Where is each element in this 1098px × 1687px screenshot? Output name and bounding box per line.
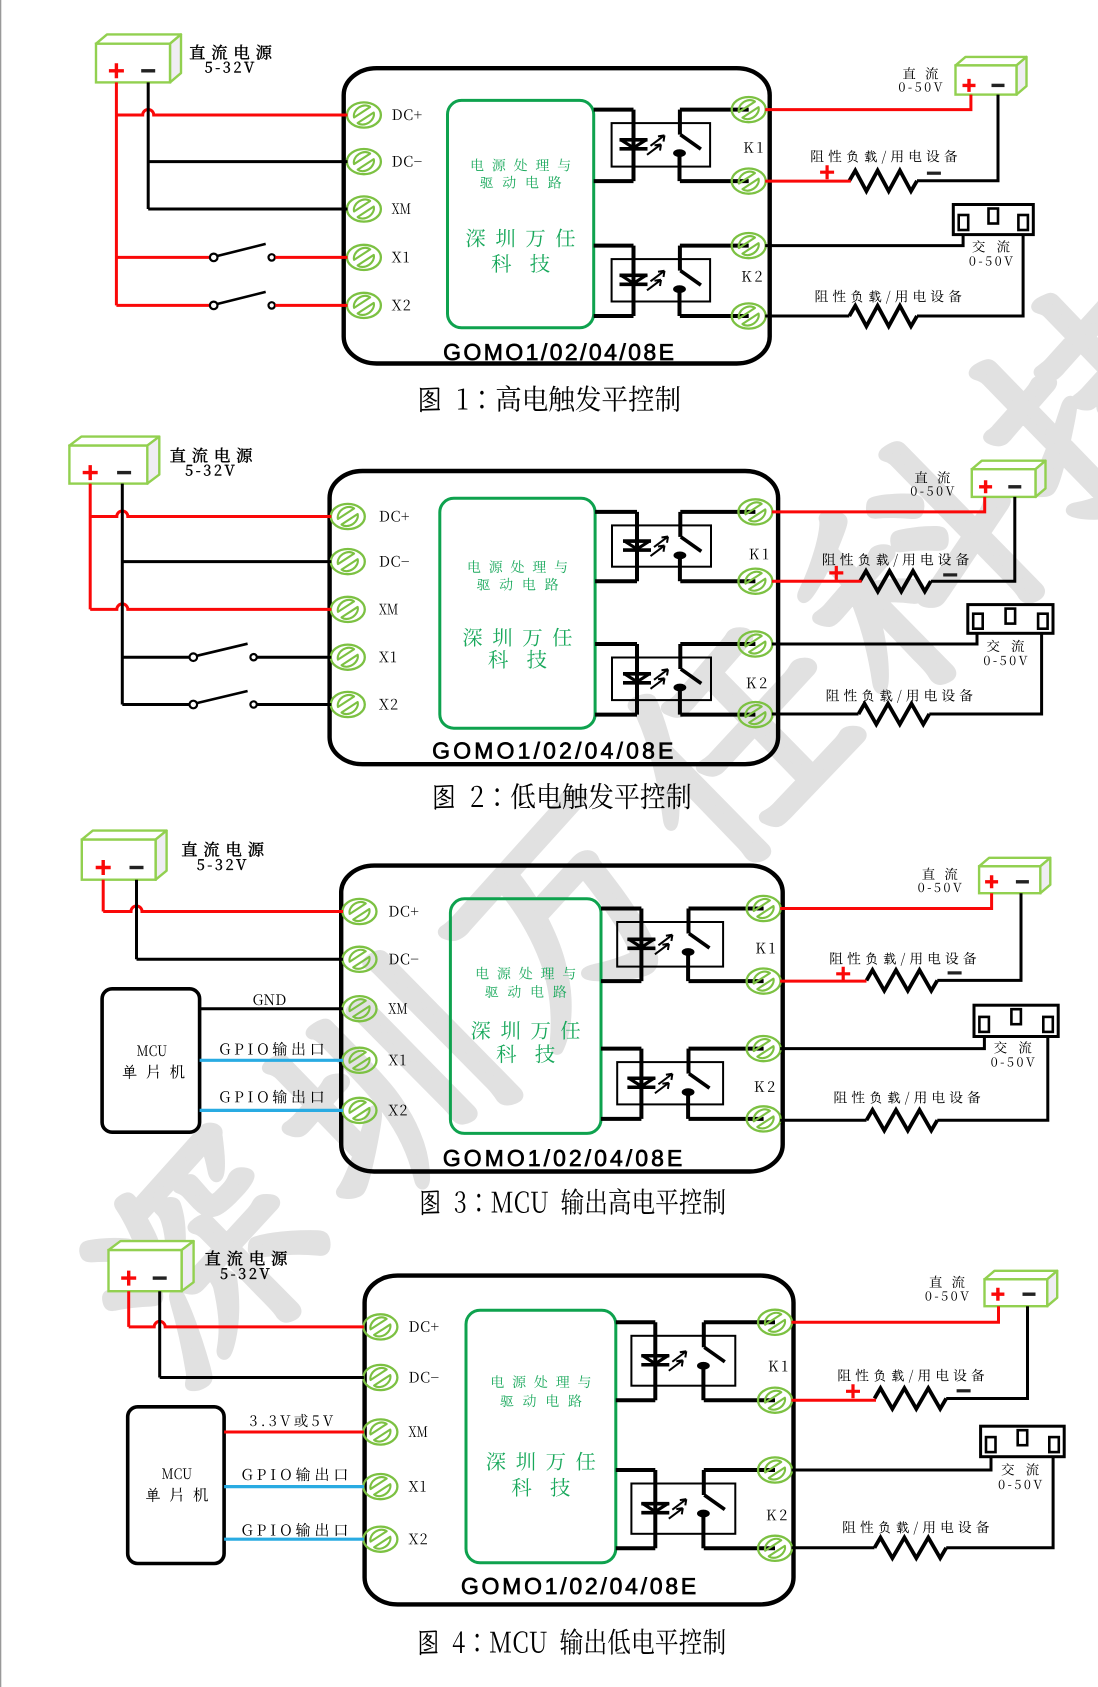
label 阻性负载/用电设备 bbox=[811, 150, 957, 164]
terminal U3.DC+ bbox=[343, 899, 377, 925]
pin label U1.X1 bbox=[392, 252, 409, 263]
terminal U3.X1 bbox=[343, 1047, 377, 1073]
relay module U2 GOMO1/02/04/08E body bbox=[330, 471, 778, 764]
label U2 model GOMO1/02/04/08E bbox=[433, 742, 672, 759]
polarity marks on load R4a bbox=[846, 1384, 860, 1398]
AC source plug 交流 0-50V (diagram 2) bbox=[968, 605, 1053, 634]
terminal U2.XM bbox=[331, 597, 365, 623]
wire DC source - down to load (black) bbox=[931, 497, 1015, 581]
optocoupler+relay K2 of U2 bbox=[612, 658, 711, 701]
wire relay K1 contacts to terminals bbox=[680, 510, 755, 514]
terminal U4 K2 bottom bbox=[758, 1535, 792, 1561]
pin label U4.X1 bbox=[409, 1481, 426, 1492]
polarity marks on load R3a bbox=[836, 967, 850, 981]
caption 图1 bbox=[420, 385, 680, 412]
label 阻性负载/用电设备 bbox=[827, 689, 973, 703]
pin label U4.DC- bbox=[409, 1372, 438, 1383]
label 直流 bbox=[922, 868, 957, 881]
label MCU bbox=[162, 1468, 192, 1479]
wire K1 top to DC source + (red) bbox=[780, 893, 992, 908]
wire DC source - down to load (black) bbox=[917, 95, 998, 181]
resistor load R3b 阻性负载 bbox=[867, 1110, 938, 1131]
optocoupler+relay K2 of U1 bbox=[612, 259, 711, 301]
pin label U3.X1 bbox=[388, 1055, 405, 1066]
label U3 深圳万任 bbox=[471, 1021, 580, 1040]
terminal U3.XM bbox=[343, 996, 377, 1022]
label 交流 bbox=[1002, 1463, 1039, 1475]
pin label U3.X2 bbox=[388, 1105, 406, 1116]
label U3 电源处理与 bbox=[477, 967, 575, 980]
label U4 model GOMO1/02/04/08E bbox=[462, 1577, 695, 1594]
terminal U1.XM bbox=[347, 196, 381, 222]
optocoupler+relay K2 of U3 bbox=[617, 1062, 723, 1104]
caption 图4 bbox=[419, 1628, 725, 1655]
switch S2 on X2 line bbox=[122, 703, 189, 706]
pin label U3.DC+ bbox=[389, 906, 418, 917]
label B4 5-32V bbox=[221, 1268, 270, 1279]
label U2 科技 bbox=[488, 650, 546, 669]
terminal U1.DC- bbox=[347, 149, 381, 175]
label U3 驱动电路 bbox=[485, 985, 566, 998]
pin label U1.XM bbox=[392, 203, 411, 214]
label U4 电源处理与 bbox=[492, 1375, 590, 1388]
AC source plug 交流 0-50V (diagram 4) bbox=[981, 1426, 1065, 1457]
terminal U1 K2 bottom bbox=[732, 303, 766, 329]
label U3 K1 bbox=[756, 943, 775, 954]
terminal U2.DC- bbox=[331, 549, 365, 575]
switch S2 on X2 line bbox=[116, 304, 209, 307]
pin label U4.DC+ bbox=[409, 1321, 438, 1332]
pin label U2.DC+ bbox=[380, 511, 409, 522]
label B1 5-32V bbox=[205, 62, 254, 73]
label 阻性负载/用电设备 bbox=[835, 1091, 981, 1105]
terminal U4.X2 bbox=[363, 1526, 397, 1552]
caption 图3 bbox=[421, 1188, 725, 1215]
label 单片机 bbox=[123, 1065, 185, 1080]
wire K1 bottom to load + (red) bbox=[765, 180, 851, 183]
wire load R3b to K2 bottom bbox=[780, 1119, 866, 1122]
resistor load R1a 阻性负载 bbox=[849, 171, 917, 192]
label U1 电源处理与 bbox=[472, 159, 570, 172]
label U1 驱动电路 bbox=[480, 176, 561, 189]
label U4 科技 bbox=[512, 1478, 570, 1497]
wire load R1b to K2 bottom bbox=[765, 315, 849, 318]
U3 driver circuit box bbox=[450, 899, 601, 1134]
wire relay K1 contacts to terminals bbox=[704, 1320, 775, 1324]
label 0-50V bbox=[984, 656, 1028, 666]
label 0-50V bbox=[911, 486, 955, 496]
battery B3 DC power 5-32V bbox=[82, 831, 167, 840]
label U4 深圳万任 bbox=[487, 1452, 596, 1471]
optocoupler+relay K2 of U4 bbox=[631, 1484, 735, 1534]
terminal U2 K2 top bbox=[738, 631, 772, 657]
DC load source 0-50V box (diagram 4) bbox=[985, 1271, 1058, 1280]
terminal U4 K2 top bbox=[758, 1457, 792, 1483]
terminal U3 K1 top bbox=[747, 896, 781, 922]
label U2 电源处理与 bbox=[469, 560, 567, 573]
terminal U3.DC- bbox=[343, 946, 377, 972]
wire K1 bottom to load + (red) bbox=[780, 980, 866, 983]
label B3 直流电源 bbox=[182, 842, 264, 857]
wire K1 top to DC source + (red) bbox=[765, 95, 971, 110]
battery B1 DC power 5-32V bbox=[96, 34, 181, 43]
label 0-50V bbox=[999, 1480, 1043, 1490]
terminal U4.DC+ bbox=[363, 1314, 397, 1340]
label U2 驱动电路 bbox=[477, 578, 558, 591]
wire relay K2 contacts to terminals bbox=[680, 244, 749, 248]
terminal U4.XM bbox=[363, 1419, 397, 1445]
terminal U2 K1 bottom bbox=[738, 568, 772, 594]
U2 driver circuit box bbox=[440, 498, 595, 728]
label 阻性负载/用电设备 bbox=[839, 1369, 985, 1383]
terminal U1 K1 bottom bbox=[732, 168, 766, 194]
battery B4 DC power 5-32V bbox=[109, 1241, 194, 1250]
MCU box (单片机) bbox=[102, 989, 200, 1132]
label U3 K2 bbox=[755, 1081, 775, 1092]
label 交流 bbox=[987, 640, 1024, 652]
label U4 K2 bbox=[767, 1510, 787, 1521]
label B1 直流电源 bbox=[190, 45, 272, 60]
caption 图2 bbox=[434, 783, 690, 810]
label B3 5-32V bbox=[197, 859, 246, 870]
label U1 model GOMO1/02/04/08E bbox=[444, 343, 673, 360]
pin label U4.X2 bbox=[409, 1533, 427, 1544]
label 0-50V bbox=[991, 1057, 1035, 1067]
label 3.3V或5V bbox=[250, 1414, 333, 1427]
label U2 K2 bbox=[747, 677, 767, 688]
wire K2 top to AC plug (black) bbox=[780, 1037, 984, 1049]
label B4 直流电源 bbox=[205, 1251, 287, 1266]
terminal U3 K2 top bbox=[747, 1036, 781, 1062]
wire DC source - down to load (black) bbox=[946, 1306, 1027, 1398]
wire relay K1 contacts to terminals bbox=[689, 907, 764, 911]
pin label U2.X1 bbox=[379, 652, 396, 663]
label 阻性负载/用电设备 bbox=[830, 952, 976, 966]
optocoupler+relay K1 of U2 bbox=[612, 525, 711, 566]
watermark 深圳万任科技 bbox=[63, 1117, 348, 1402]
label 阻性负载/用电设备 bbox=[843, 1521, 989, 1535]
pin label U2.DC- bbox=[380, 556, 409, 567]
wire B4- to DC- (black) bbox=[158, 1291, 161, 1377]
wire AC plug down to load R4b bbox=[946, 1457, 1053, 1548]
DC load source 0-50V box (diagram 3) bbox=[979, 858, 1050, 867]
wire AC plug down to load R1b bbox=[917, 235, 1023, 316]
label U1 K1 bbox=[744, 142, 763, 153]
wire K1 top to DC source + (red) bbox=[772, 497, 985, 512]
pin label U3.DC- bbox=[389, 954, 418, 965]
wire relay K2 contacts to terminals bbox=[689, 1047, 764, 1051]
wire MCU to XM (3.3V或5V) bbox=[224, 1431, 364, 1434]
label GND bbox=[253, 994, 285, 1005]
wire relay K1 contacts to terminals bbox=[680, 108, 749, 112]
label MCU bbox=[137, 1045, 167, 1056]
AC source plug 交流 0-50V (diagram 1) bbox=[953, 205, 1033, 235]
wire K1 bottom to load + (red) bbox=[792, 1399, 877, 1402]
resistor load R2a 阻性负载 bbox=[860, 571, 931, 592]
wire AC plug down to load R3b bbox=[937, 1037, 1048, 1121]
wire B3- to DC- (black) bbox=[135, 880, 138, 960]
label 交流 bbox=[994, 1041, 1031, 1053]
terminal U3.X2 bbox=[343, 1098, 377, 1124]
polarity marks on load R1a bbox=[820, 165, 834, 179]
label U1 科技 bbox=[492, 254, 550, 273]
terminal U4.DC- bbox=[363, 1365, 397, 1391]
optocoupler+relay K1 of U1 bbox=[612, 123, 711, 167]
U4 driver circuit box bbox=[466, 1310, 616, 1563]
wire K2 top to AC plug (black) bbox=[792, 1457, 992, 1470]
terminal U1 K2 top bbox=[732, 233, 766, 259]
wire relay K2 contacts to terminals bbox=[704, 1468, 775, 1472]
label 阻性负载/用电设备 bbox=[823, 553, 969, 567]
pin label U1.DC- bbox=[392, 156, 421, 167]
label U1 深圳万任 bbox=[466, 229, 575, 248]
wire K2 top to AC plug (black) bbox=[765, 235, 963, 246]
label U2 深圳万任 bbox=[463, 628, 572, 647]
resistor load R2b 阻性负载 bbox=[859, 704, 930, 725]
U1 driver circuit box bbox=[448, 100, 594, 327]
pin label U1.X2 bbox=[392, 300, 410, 311]
relay module U3 GOMO1/02/04/08E body bbox=[341, 866, 783, 1172]
wire load R2b to K2 bottom bbox=[772, 713, 859, 716]
terminal U2 K2 bottom bbox=[738, 702, 772, 728]
label U4 驱动电路 bbox=[500, 1394, 581, 1407]
wire B4+ to DC+ (red) bbox=[127, 1291, 130, 1327]
label GPIO输出口 bbox=[220, 1042, 323, 1056]
label 0-50V bbox=[970, 256, 1014, 266]
resistor load R4b 阻性负载 bbox=[875, 1538, 947, 1559]
MCU box (单片机) bbox=[128, 1407, 224, 1564]
terminal U4 K1 bottom bbox=[758, 1387, 792, 1413]
pin label U2.XM bbox=[379, 604, 398, 615]
resistor load R3a 阻性负载 bbox=[867, 970, 938, 991]
terminal U2.DC+ bbox=[331, 504, 365, 530]
label GPIO输出口 bbox=[242, 1523, 347, 1537]
switch S1 on X1 line bbox=[116, 256, 209, 259]
wire K1 top to DC source + (red) bbox=[792, 1306, 999, 1322]
label GPIO输出口 bbox=[220, 1090, 323, 1104]
wire K2 top to AC plug (black) bbox=[772, 633, 977, 644]
relay module U4 GOMO1/02/04/08E body bbox=[365, 1276, 794, 1605]
label U3 model GOMO1/02/04/08E bbox=[444, 1149, 681, 1166]
label 0-50V bbox=[926, 1291, 970, 1301]
terminal U2 K1 top bbox=[738, 499, 772, 525]
terminal U1 K1 top bbox=[732, 97, 766, 123]
label 单片机 bbox=[146, 1488, 208, 1503]
label B2 5-32V bbox=[186, 465, 235, 476]
wire MCU to XM (GND) bbox=[200, 1007, 343, 1010]
wire K1 bottom to load + (red) bbox=[772, 580, 862, 583]
wire MCU GPIO to X2 (blue) bbox=[224, 1538, 364, 1541]
terminal U1.X2 bbox=[347, 293, 381, 319]
wire MCU GPIO to X2 (blue) bbox=[200, 1109, 343, 1112]
label U3 科技 bbox=[497, 1044, 555, 1063]
pin label U4.XM bbox=[409, 1426, 428, 1437]
label 0-50V bbox=[899, 82, 943, 92]
terminal U2.X1 bbox=[331, 644, 365, 670]
terminal U3 K2 bottom bbox=[747, 1106, 781, 1132]
optocoupler+relay K1 of U3 bbox=[617, 922, 723, 967]
terminal U3 K1 bottom bbox=[747, 968, 781, 994]
terminal U1.X1 bbox=[347, 245, 381, 271]
polarity marks on load R2a bbox=[829, 566, 843, 580]
label 直流 bbox=[903, 67, 938, 80]
wire load R4b to K2 bottom bbox=[792, 1546, 875, 1549]
pin label U1.DC+ bbox=[392, 109, 421, 120]
terminal U4 K1 top bbox=[758, 1309, 792, 1335]
page edge line bbox=[0, 0, 1, 1687]
wire AC plug down to load R2b bbox=[929, 633, 1041, 714]
optocoupler+relay K1 of U4 bbox=[631, 1336, 735, 1386]
label U2 K1 bbox=[750, 549, 769, 560]
DC load source 0-50V box (diagram 2) bbox=[972, 461, 1046, 470]
relay module U1 GOMO1/02/04/08E body bbox=[344, 68, 770, 363]
wire B2- to DC- and switches (black) bbox=[121, 484, 124, 705]
label 0-50V bbox=[918, 883, 962, 893]
pin label U2.X2 bbox=[379, 699, 397, 710]
label 阻性负载/用电设备 bbox=[816, 290, 962, 304]
switch S1 on X1 line bbox=[122, 656, 189, 659]
terminal U2.X2 bbox=[331, 692, 365, 718]
label 直流 bbox=[915, 471, 950, 484]
resistor load R1b 阻性负载 bbox=[849, 306, 917, 327]
terminal U1.DC+ bbox=[347, 102, 381, 128]
terminal U4.X1 bbox=[363, 1474, 397, 1500]
DC load source 0-50V box (diagram 1) bbox=[956, 57, 1027, 66]
label U1 K2 bbox=[742, 271, 762, 282]
wire B2+ to DC+ and XM (red) bbox=[89, 484, 92, 610]
resistor load R4a 阻性负载 bbox=[875, 1388, 947, 1409]
wire DC source - down to load (black) bbox=[937, 893, 1021, 980]
label 直流 bbox=[930, 1276, 965, 1289]
wire B1+ to DC+ and switches (red) bbox=[115, 82, 118, 305]
AC source plug 交流 0-50V (diagram 3) bbox=[974, 1005, 1058, 1036]
wire relay K2 contacts to terminals bbox=[680, 642, 755, 646]
battery B2 DC power 5-32V bbox=[69, 437, 159, 446]
wire B1- to DC- and XM (black) bbox=[147, 82, 150, 209]
wire MCU GPIO to X1 (blue) bbox=[200, 1059, 343, 1062]
label U4 K1 bbox=[769, 1361, 788, 1372]
label 交流 bbox=[972, 240, 1009, 252]
wire B3+ to DC+ (red) bbox=[102, 880, 105, 912]
wire MCU GPIO to X1 (blue) bbox=[224, 1485, 364, 1488]
pin label U3.XM bbox=[388, 1003, 407, 1014]
label GPIO输出口 bbox=[242, 1467, 347, 1481]
label B2 直流电源 bbox=[170, 448, 252, 463]
